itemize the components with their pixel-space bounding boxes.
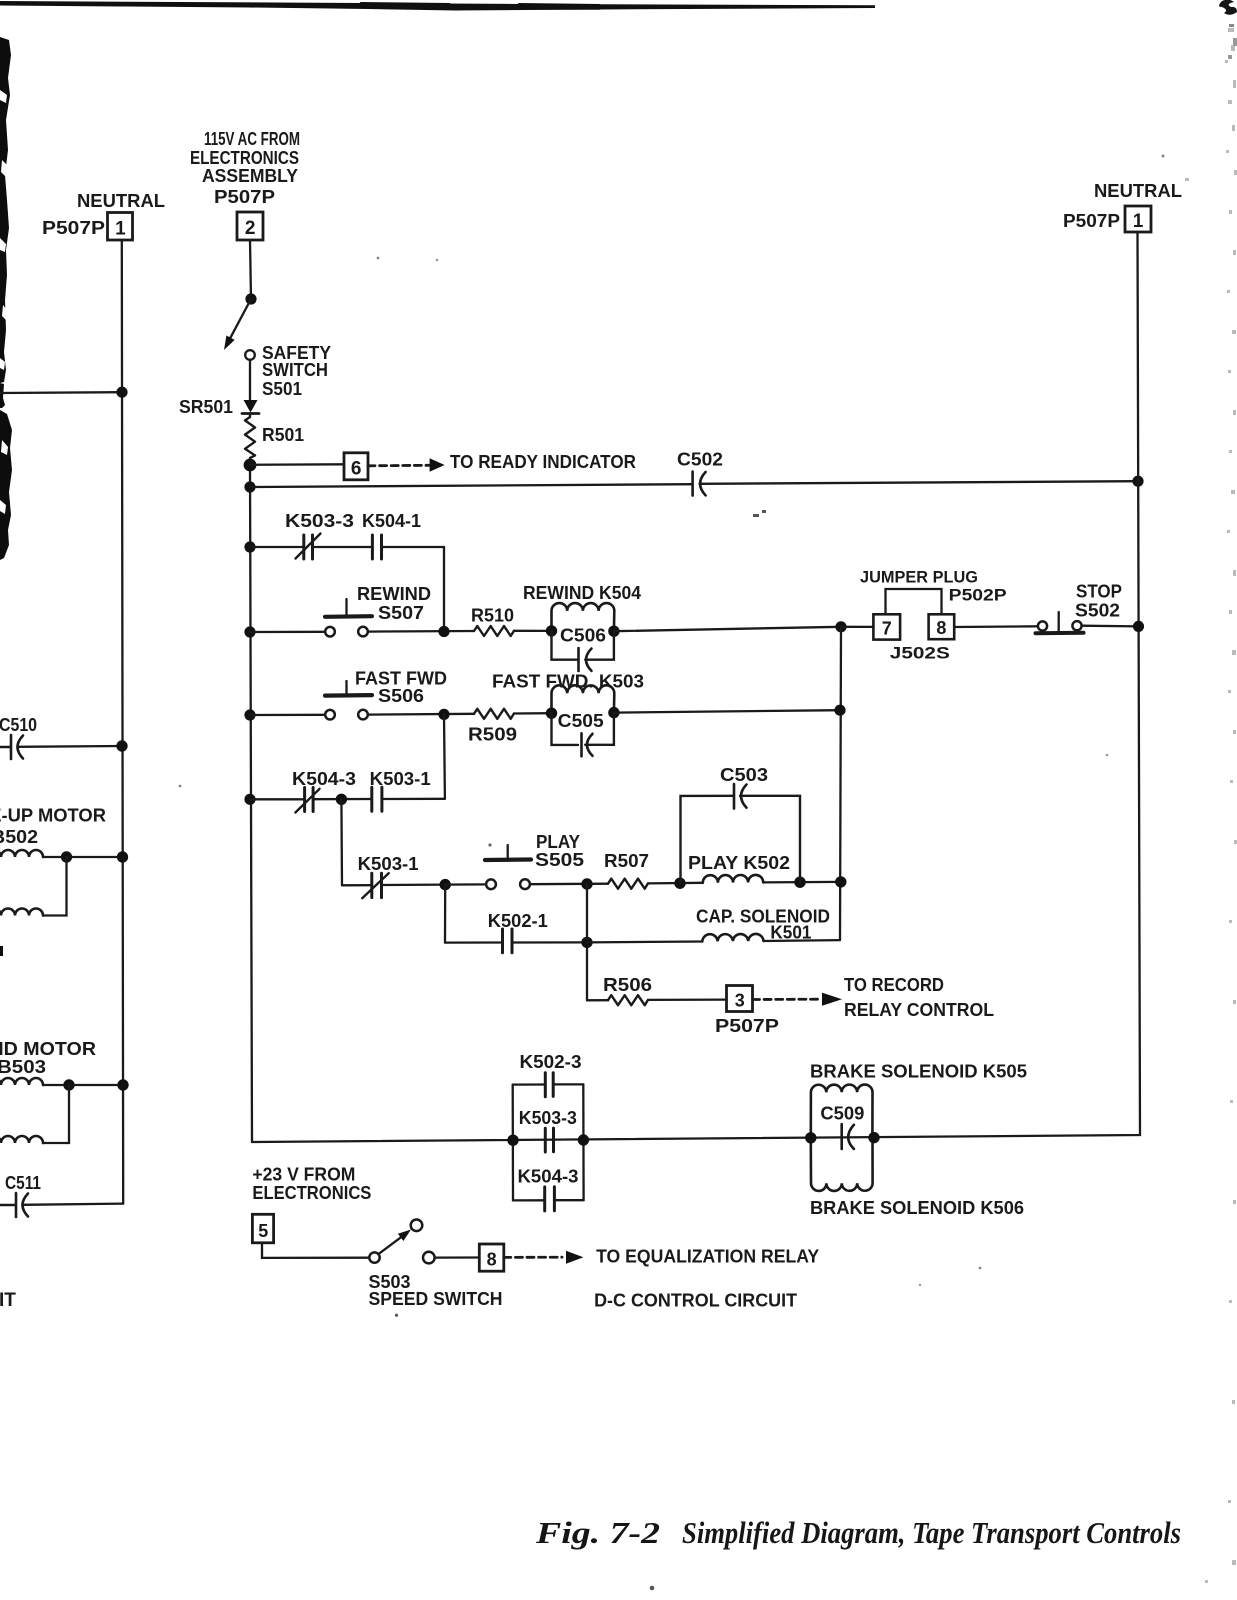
relay contact K503-1 (NO) [372, 787, 382, 811]
connector terminal box pin 5 [252, 1214, 273, 1243]
junction [868, 1132, 879, 1143]
svg-text:R506: R506 [603, 975, 652, 995]
junction [805, 1132, 816, 1143]
relay contact K503-3 (NC) [304, 535, 313, 559]
svg-text:J502S: J502S [890, 643, 950, 662]
relay contact K502-1 [503, 929, 513, 953]
wire to equalization terminal [435, 1256, 480, 1258]
wire: right neutral bus + bottom bus [252, 232, 1140, 1142]
scan speckles page [179, 155, 1165, 1591]
wire [249, 360, 251, 400]
svg-text:TO RECORD: TO RECORD [844, 975, 944, 995]
svg-text:K502-3: K502-3 [520, 1052, 582, 1072]
svg-text:3: 3 [735, 991, 745, 1011]
wire: riser from fast-fwd row [443, 714, 446, 798]
svg-text:6: 6 [351, 459, 362, 480]
wire segments of K504-3/K503-1 row [250, 798, 445, 801]
wire pin8 to stop switch [954, 625, 1038, 628]
dashed lead to record relay control [753, 998, 819, 1001]
svg-text:PLAY K502: PLAY K502 [688, 853, 790, 873]
junction [63, 1079, 74, 1090]
junction [578, 1134, 589, 1145]
safety switch S501 arm with arrow [231, 299, 252, 338]
page top scan border [0, 1, 875, 11]
capacitor C509 [840, 1124, 843, 1149]
relay contact K504-3 (NC) [305, 788, 314, 812]
svg-text:S507: S507 [378, 603, 424, 623]
pushbutton PLAY S505 [485, 857, 531, 862]
junction [581, 937, 592, 948]
node: 115V AC FROM ELECTRONICS ASSEMBLY P507P label [190, 129, 300, 207]
resistor R506 [608, 995, 648, 1005]
svg-text:B502: B502 [0, 827, 38, 847]
dashed lead to ready indicator [368, 464, 429, 467]
motor winding B503 upper [0, 1078, 43, 1085]
svg-text:BRAKE SOLENOID K505: BRAKE SOLENOID K505 [810, 1062, 1027, 1082]
junction [116, 387, 127, 398]
junction [608, 626, 619, 637]
svg-text:C511: C511 [5, 1173, 41, 1193]
wire stop switch to right bus [1082, 625, 1139, 628]
svg-text:SWITCH: SWITCH [262, 360, 328, 380]
connector terminal box pin 3 (P507P) [727, 986, 753, 1012]
wire cap-solenoid row [587, 940, 702, 943]
svg-text:+23 V FROM: +23 V FROM [252, 1165, 355, 1185]
wire [530, 883, 608, 886]
svg-text:K504-3: K504-3 [518, 1166, 579, 1186]
svg-text:C510: C510 [0, 715, 37, 735]
wire [648, 998, 727, 1001]
junction [1133, 621, 1144, 632]
relay coil REWIND K504 [552, 603, 615, 631]
wire [648, 882, 703, 885]
relay contact K504-3 (stack) [545, 1187, 555, 1211]
svg-text:K503-3: K503-3 [519, 1108, 577, 1128]
wire: C502 row left segment [250, 484, 692, 487]
junction [834, 705, 845, 716]
junction [674, 878, 685, 889]
wire: drop from R507 junction through cap row [586, 884, 588, 1000]
wire R506 row [587, 999, 608, 1001]
capacitor C511 [0, 1204, 16, 1206]
wire bottom branch (K504-3) [513, 1199, 584, 1202]
junction [794, 877, 805, 888]
connector terminal box pin 8 (equalization) [479, 1244, 504, 1271]
junction [244, 794, 255, 805]
wire [368, 630, 474, 633]
wire rewind row left [250, 631, 325, 634]
junction [835, 621, 846, 632]
motor winding B502 lower [0, 909, 43, 916]
connector terminal box pin 6 [344, 453, 368, 480]
relay contact K503-1 (NC, lower) [372, 873, 382, 897]
scan speckles right margin [1185, 28, 1237, 1583]
svg-text:K504-1: K504-1 [362, 511, 421, 531]
jumper strap between pins 7 and 8 [886, 589, 942, 614]
speed switch S503 right throw circle [423, 1252, 435, 1264]
wire segments of K503-3/K504-1 branch [250, 546, 444, 548]
connector box pin 8 (J502S) [929, 614, 955, 639]
junction [117, 1079, 128, 1090]
capacitor C502 [691, 472, 694, 496]
junction [244, 481, 255, 492]
wire: drop from play-row junction to K502-1 row [444, 885, 447, 943]
svg-text:K503-3: K503-3 [285, 511, 354, 531]
wire top branch (K502-3) [513, 1083, 584, 1085]
speed switch S503 arm with arrow [378, 1237, 400, 1254]
relay contact K504-1 (NO) [372, 535, 381, 559]
junction [245, 293, 256, 304]
svg-text:REWIND: REWIND [357, 584, 431, 604]
junction [244, 626, 255, 637]
wire [514, 630, 552, 632]
svg-text:RELAY CONTROL: RELAY CONTROL [844, 1000, 994, 1020]
svg-text:S506: S506 [378, 686, 424, 706]
capacitor C510 [0, 746, 11, 748]
svg-text:Simplified Diagram, Tape Trans: Simplified Diagram, Tape Transport Contr… [682, 1515, 1181, 1550]
scan mark top-right corner [1219, 0, 1237, 15]
capacitor C505 parallel branch [552, 713, 614, 745]
svg-text:8: 8 [487, 1250, 497, 1270]
svg-text:1: 1 [115, 219, 126, 240]
junction [244, 459, 257, 472]
connector terminal box pin 2 [237, 212, 263, 240]
wire [368, 713, 474, 716]
left torn scan edge [0, 37, 12, 956]
svg-text:P507P: P507P [214, 187, 275, 207]
wire lower winding loop [43, 1085, 69, 1143]
pushbutton REWIND S507 [325, 614, 372, 619]
safety switch S501 contact circle [245, 350, 255, 360]
wire: stub to left page edge [0, 391, 122, 394]
wire to ready-indicator terminal [250, 463, 344, 466]
wire C511 to left bus corner [23, 1204, 124, 1205]
svg-text:JUMPER PLUG: JUMPER PLUG [860, 568, 978, 587]
wire [763, 881, 841, 884]
motor winding B502 upper [0, 850, 43, 857]
svg-text:5: 5 [258, 1221, 268, 1241]
svg-text:Fig. 7-2: Fig. 7-2 [535, 1515, 660, 1550]
resistor R501 [245, 414, 255, 465]
wire C510 to left bus [18, 745, 123, 748]
svg-text:S502: S502 [1075, 601, 1120, 621]
wire: from pin 2 down [250, 240, 251, 299]
wire from pin 5 [262, 1243, 369, 1258]
junction [546, 708, 557, 719]
svg-text:R507: R507 [604, 851, 649, 871]
wire [43, 856, 123, 858]
solenoid coil BRAKE K505 [811, 1085, 873, 1138]
junction [1132, 476, 1143, 487]
wire [514, 712, 552, 715]
junction [244, 709, 255, 720]
svg-text:1: 1 [1133, 211, 1144, 232]
label SAFETY SWITCH S501 [262, 343, 331, 399]
diode SR501 [244, 400, 258, 413]
svg-text:TO EQUALIZATION RELAY: TO EQUALIZATION RELAY [596, 1247, 819, 1267]
wire: drop to second K503-1 row [340, 799, 343, 885]
svg-text:R510: R510 [471, 606, 514, 626]
svg-text:C502: C502 [677, 450, 723, 470]
relay contact K503-3 (on bus) [545, 1128, 553, 1152]
junction [835, 876, 846, 887]
speed switch S503 upper throw circle [411, 1220, 423, 1232]
wire: middle vertical bus x=840 [840, 627, 841, 940]
contact stack side wires [513, 1084, 584, 1200]
motor winding B503 lower [0, 1136, 43, 1143]
svg-text:D-C CONTROL CIRCUIT: D-C CONTROL CIRCUIT [594, 1291, 797, 1311]
relay contact K502-3 [545, 1073, 553, 1097]
resistor R509 [474, 709, 514, 719]
svg-text:ELECTRONICS: ELECTRONICS [252, 1183, 371, 1203]
wire lower winding loop [43, 857, 67, 916]
solenoid coil BRAKE K506 [811, 1138, 873, 1191]
svg-text:TO READY INDICATOR: TO READY INDICATOR [450, 452, 636, 472]
junction [244, 541, 255, 552]
svg-text:NEUTRAL: NEUTRAL [77, 191, 165, 211]
svg-text:P507P: P507P [1063, 211, 1120, 231]
wire cap row to middle bus corner [764, 939, 841, 942]
wire rewind row to jumper junction [614, 627, 841, 631]
junction [438, 709, 449, 720]
svg-text:BRAKE SOLENOID K506: BRAKE SOLENOID K506 [810, 1198, 1024, 1218]
svg-text:R509: R509 [468, 725, 517, 745]
solenoid coil CAP. SOLENOID K501 [702, 934, 763, 941]
junction [438, 626, 449, 637]
svg-text:K502-1: K502-1 [488, 911, 548, 931]
wire fast fwd row to middle bus [614, 710, 840, 712]
svg-text:S501: S501 [262, 379, 302, 399]
connector terminal box pin 1 (right P507P) [1125, 206, 1151, 232]
wire: left neutral bus (vertical) [122, 240, 123, 1204]
svg-text:IT: IT [0, 1290, 16, 1311]
svg-text:B503: B503 [0, 1057, 46, 1077]
junction [116, 740, 127, 751]
dashed lead to equalization relay [504, 1256, 562, 1259]
resistor R510 [474, 626, 514, 636]
svg-text:C505: C505 [558, 711, 604, 731]
relay coil PLAY K502 [703, 875, 763, 883]
junction [507, 1135, 518, 1146]
svg-text:P502P: P502P [949, 586, 1007, 605]
svg-text:FAST FWD. K503: FAST FWD. K503 [492, 672, 644, 692]
svg-text:C506: C506 [560, 626, 606, 646]
svg-text:P507P: P507P [42, 218, 105, 238]
junction [546, 625, 557, 636]
svg-text:8: 8 [936, 618, 946, 638]
svg-text:K503-1: K503-1 [358, 854, 419, 874]
wire: C502 row right segment [700, 481, 1139, 484]
svg-text:K503-1: K503-1 [370, 769, 431, 789]
wire segments of K502-1 row [445, 941, 587, 943]
wire [43, 1084, 123, 1086]
svg-text:SR501: SR501 [179, 397, 233, 417]
svg-text:C503: C503 [720, 765, 768, 785]
svg-text:R501: R501 [262, 425, 304, 445]
svg-text:2: 2 [245, 218, 256, 239]
junction [608, 707, 619, 718]
junction [440, 879, 451, 890]
wire to jumper pin 7 [841, 626, 873, 628]
svg-text:REWIND K504: REWIND K504 [523, 583, 641, 603]
wire: branch drop to rewind row [443, 547, 445, 632]
pushbutton STOP S502 (NC) [1036, 631, 1084, 635]
svg-text:SPEED SWITCH: SPEED SWITCH [369, 1289, 503, 1309]
capacitor C506 parallel branch [552, 631, 614, 660]
capacitor C503 parallel branch over K502 [681, 796, 801, 883]
svg-text:K504-3: K504-3 [292, 769, 356, 789]
wire fast-fwd row left [250, 714, 325, 717]
svg-text:PLAY: PLAY [536, 832, 580, 852]
svg-text:NEUTRAL: NEUTRAL [1094, 181, 1182, 201]
junction [336, 794, 347, 805]
wire play row to switch [445, 883, 486, 885]
svg-text:KE-UP MOTOR: KE-UP MOTOR [0, 806, 106, 826]
pushbutton FAST FWD S506 [325, 693, 372, 698]
svg-text:STOP: STOP [1076, 582, 1122, 602]
svg-text:ELECTRONICS: ELECTRONICS [190, 148, 299, 168]
svg-text:7: 7 [882, 619, 892, 639]
junction [117, 851, 128, 862]
junction [61, 851, 72, 862]
wire segments of lower K503-1 row [342, 883, 445, 886]
svg-text:ASSEMBLY: ASSEMBLY [202, 166, 298, 186]
connector terminal box pin 1 (left P507P) [108, 213, 133, 241]
svg-text:115V AC FROM: 115V AC FROM [204, 129, 300, 149]
svg-text:IND MOTOR: IND MOTOR [0, 1039, 96, 1059]
svg-text:C509: C509 [820, 1104, 864, 1124]
resistor R507 [608, 879, 648, 889]
speed switch S503 pole circle [369, 1252, 379, 1262]
svg-text:P507P: P507P [715, 1016, 779, 1036]
junction [581, 878, 592, 889]
svg-text:S505: S505 [535, 850, 584, 870]
relay coil FAST FWD K503 [552, 685, 615, 713]
connector box pin 7 (J502S) [873, 614, 900, 639]
wire: main left control bus [250, 465, 252, 1142]
